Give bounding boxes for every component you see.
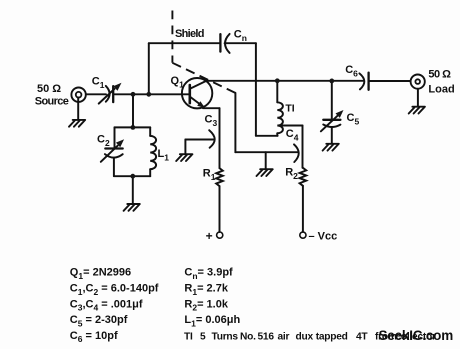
svg-text:Load: Load — [428, 83, 454, 95]
svg-text:Shield: Shield — [175, 28, 204, 40]
svg-text:50 Ω: 50 Ω — [428, 69, 451, 81]
svg-text:C4: C4 — [286, 128, 299, 143]
svg-text:50 Ω: 50 Ω — [37, 83, 61, 95]
svg-text:R1= 2.7k: R1= 2.7k — [184, 283, 228, 297]
svg-text:R2: R2 — [285, 167, 298, 182]
svg-text:C3,C4 = .001μf: C3,C4 = .001μf — [70, 298, 143, 312]
svg-text:C6: C6 — [345, 64, 358, 79]
svg-text:C1: C1 — [92, 76, 105, 91]
svg-text:C3: C3 — [205, 114, 218, 129]
svg-text:Q1= 2N2996: Q1= 2N2996 — [70, 267, 131, 281]
svg-text:C5: C5 — [347, 112, 360, 127]
svg-text:C2: C2 — [97, 134, 110, 149]
svg-text:R1: R1 — [203, 168, 216, 183]
svg-text:C1,C2 = 6.0-140pf: C1,C2 = 6.0-140pf — [70, 283, 159, 297]
svg-text:Cn: Cn — [234, 29, 247, 44]
svg-text:+: + — [206, 229, 213, 243]
svg-text:Source: Source — [35, 96, 69, 108]
svg-text:C6 = 10pf: C6 = 10pf — [70, 330, 118, 344]
svg-text:Cn= 3.9pf: Cn= 3.9pf — [184, 267, 233, 281]
svg-text:L1= 0.06μh: L1= 0.06μh — [184, 314, 240, 328]
svg-text:– Vcc: – Vcc — [309, 230, 338, 242]
svg-text:R2= 1.0k: R2= 1.0k — [184, 298, 228, 312]
svg-text:TI: TI — [285, 103, 294, 115]
svg-text:C5 = 2-30pf: C5 = 2-30pf — [70, 314, 128, 328]
svg-text:L1: L1 — [158, 148, 170, 163]
svg-text:Q1: Q1 — [171, 75, 185, 90]
svg-text:SeekIC.com: SeekIC.com — [379, 328, 454, 343]
